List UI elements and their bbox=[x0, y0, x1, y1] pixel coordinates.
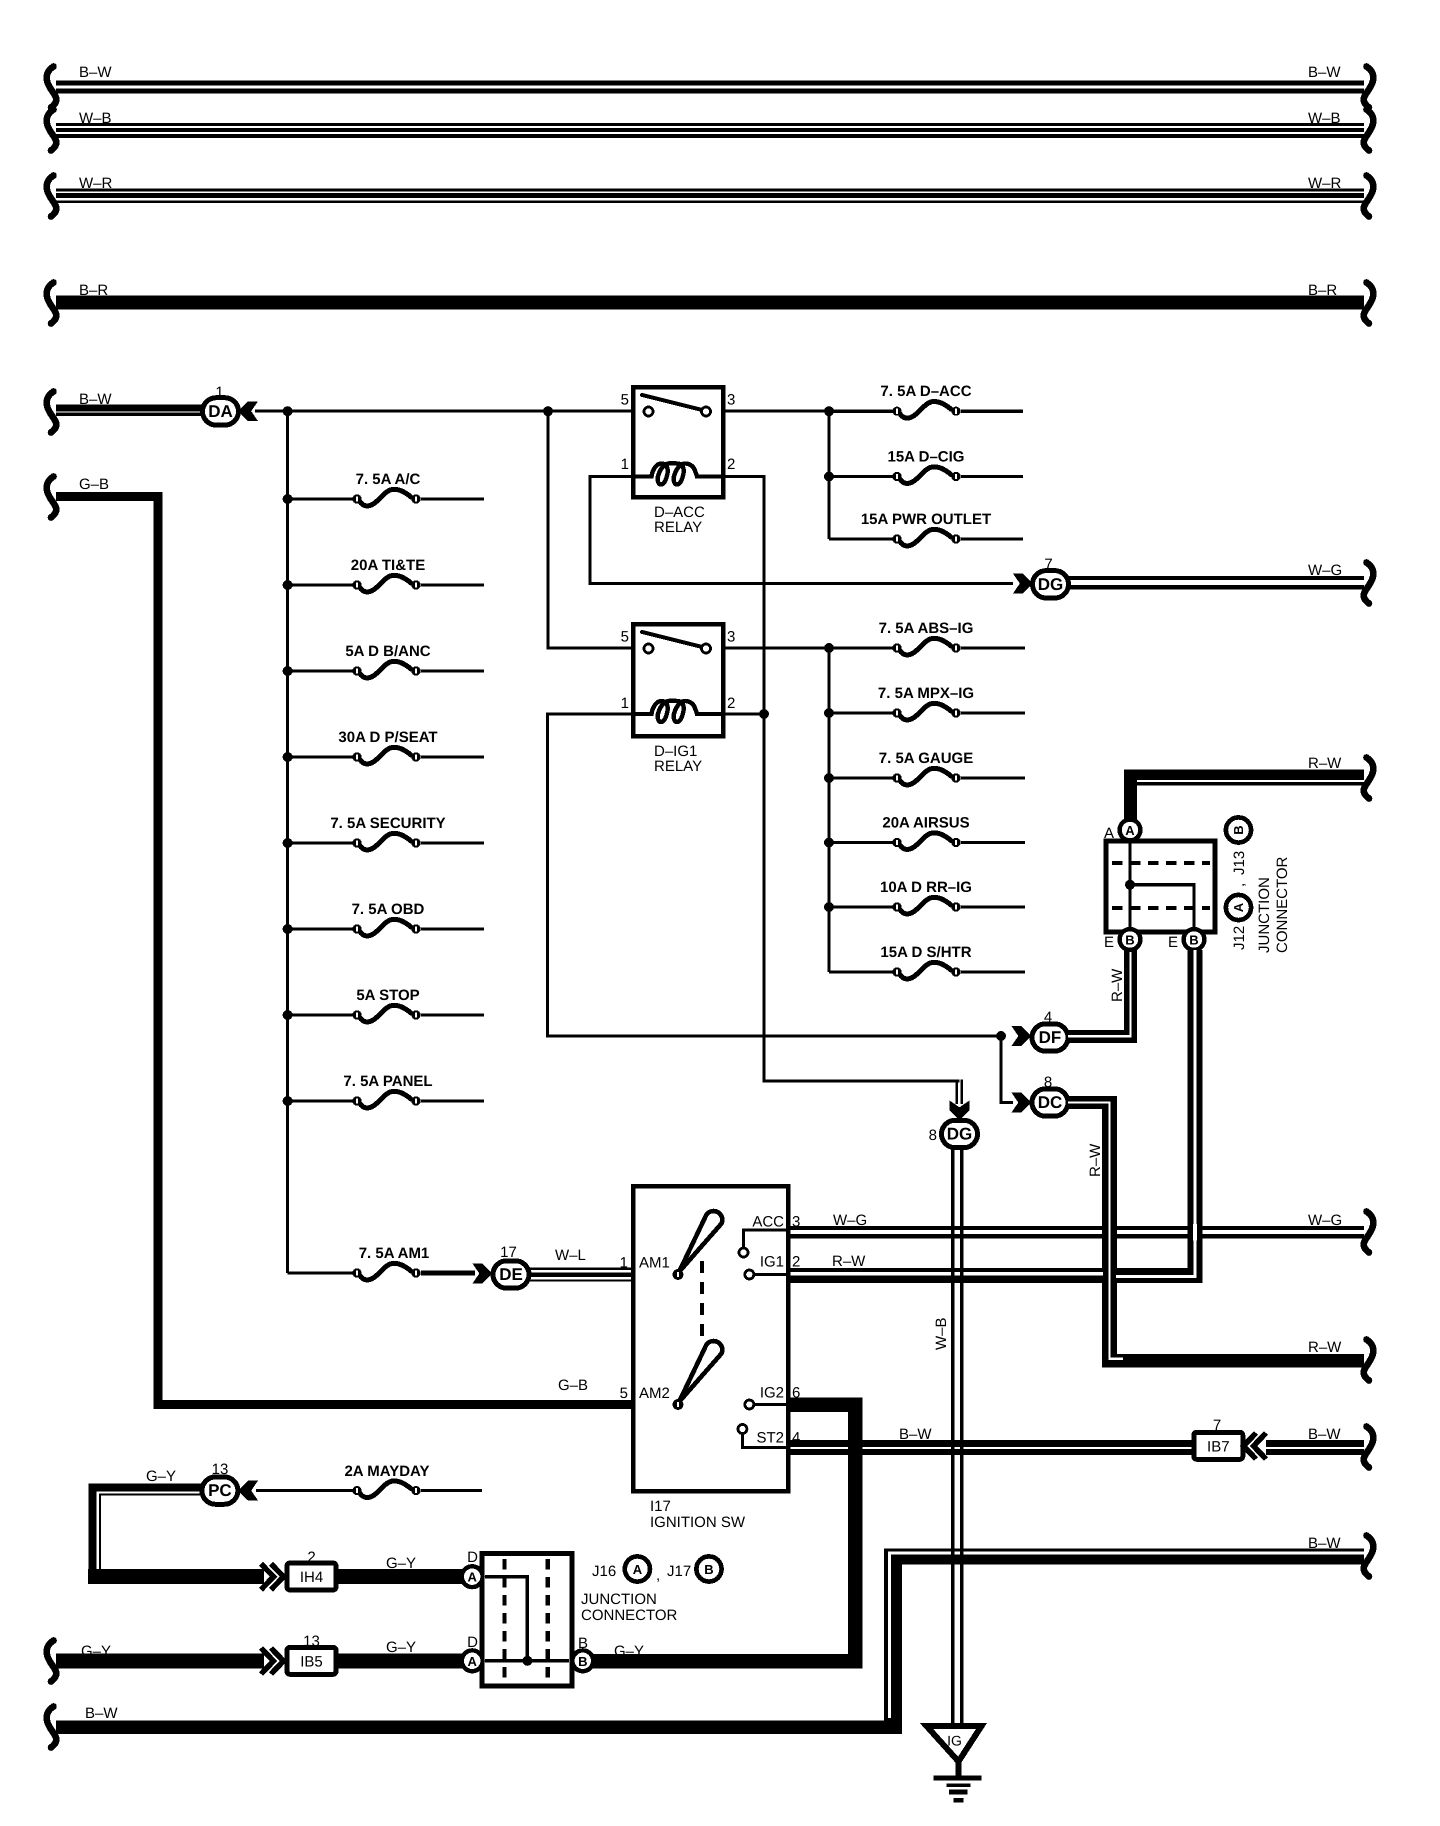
svg-text:G–Y: G–Y bbox=[146, 1468, 176, 1485]
wire B-vertical gap over W-G crossing bbox=[1193, 1224, 1197, 1241]
wire to fuse 15A PWR OUTLET bbox=[829, 537, 893, 540]
wire D-ACC pin2 down bbox=[723, 477, 764, 715]
svg-text:ST2: ST2 bbox=[756, 1430, 784, 1447]
relay D-IG1 box bbox=[633, 624, 723, 736]
svg-text:IB7: IB7 bbox=[1207, 1438, 1230, 1455]
wire W-L from DE to ignition switch AM1 bbox=[529, 1267, 633, 1269]
svg-text:DG: DG bbox=[947, 1125, 973, 1144]
wire down to DC bbox=[1001, 1036, 1013, 1103]
svg-text:B–W: B–W bbox=[1308, 1535, 1341, 1552]
svg-text:B: B bbox=[1125, 933, 1134, 948]
page connector brace W-R right bbox=[1364, 176, 1374, 217]
junction dot at fuse 7. 5A SECURITY bbox=[283, 838, 293, 848]
page connector brace B-R left bbox=[47, 283, 57, 324]
svg-text:AM1: AM1 bbox=[639, 1255, 670, 1272]
svg-text:2: 2 bbox=[727, 695, 735, 712]
junction dot feeder B row 3 bbox=[824, 773, 834, 783]
svg-text:A: A bbox=[468, 1570, 478, 1585]
svg-text:B: B bbox=[704, 1562, 713, 1577]
svg-text:B: B bbox=[1231, 825, 1246, 834]
page connector brace B-R right bbox=[1364, 283, 1374, 324]
svg-text:A: A bbox=[1125, 823, 1135, 838]
wire to fuse 7. 5A SECURITY bbox=[288, 841, 353, 844]
wire G-Y from PC loop to IH4 feed bbox=[93, 1488, 203, 1576]
junction connector dashed row 2 bbox=[1112, 906, 1210, 910]
wire D-ACC pin3 to right fuse feeder bbox=[723, 410, 829, 413]
wire right feeder A bbox=[827, 411, 830, 539]
svg-text:7. 5A SECURITY: 7. 5A SECURITY bbox=[330, 815, 445, 832]
wire DC core over W-G crossing bbox=[1108, 1224, 1110, 1241]
svg-text:DF: DF bbox=[1039, 1028, 1062, 1047]
svg-text:G–Y: G–Y bbox=[386, 1639, 416, 1656]
ground bar 4 bbox=[954, 1798, 964, 1802]
junction connector inner link bbox=[485, 1577, 569, 1661]
switch link dashed bbox=[700, 1261, 704, 1343]
junction dot feeder B row 5 bbox=[824, 902, 834, 912]
svg-text:3: 3 bbox=[727, 629, 735, 646]
svg-text:15A PWR OUTLET: 15A PWR OUTLET bbox=[861, 511, 991, 528]
junction dot inner link bbox=[1125, 880, 1135, 890]
svg-text:RELAY: RELAY bbox=[654, 519, 702, 536]
switch AM2 blade bbox=[679, 1341, 722, 1402]
page connector brace B-W IB7 right bbox=[1364, 1427, 1374, 1468]
ground bar 3 bbox=[949, 1790, 968, 1795]
terminal B bottom-left bbox=[1120, 929, 1141, 950]
connector DC arrow bbox=[1012, 1093, 1032, 1113]
svg-text:10A D RR–IG: 10A D RR–IG bbox=[880, 879, 972, 896]
svg-text:JUNCTION: JUNCTION bbox=[1256, 877, 1273, 953]
wire AM1 fuse to DE bbox=[421, 1271, 475, 1276]
wire to fuse 7. 5A A/C bbox=[288, 497, 353, 500]
connector PC bbox=[202, 1477, 238, 1504]
svg-text:30A D P/SEAT: 30A D P/SEAT bbox=[338, 729, 437, 746]
svg-text:CONNECTOR: CONNECTOR bbox=[1274, 856, 1291, 953]
terminal B right bbox=[572, 1650, 593, 1671]
svg-text:B–W: B–W bbox=[1308, 1426, 1341, 1443]
wire to fuse 5A D B/ANC bbox=[288, 669, 353, 672]
wire W-B from DG(8) to ground bbox=[951, 1147, 954, 1725]
junction dot at fuse 30A D P/SEAT bbox=[283, 752, 293, 762]
terminal A top bbox=[1120, 820, 1141, 841]
page connector brace W-G ACC right bbox=[1364, 1212, 1374, 1253]
connector IH4 chevrons bbox=[261, 1564, 284, 1590]
svg-text:B–W: B–W bbox=[79, 64, 112, 81]
wire to fuse 7. 5A OBD bbox=[288, 927, 353, 930]
page connector brace W-B right bbox=[1364, 110, 1374, 151]
svg-text:2: 2 bbox=[792, 1254, 800, 1271]
svg-text:DE: DE bbox=[499, 1265, 523, 1284]
page connector brace B-W mid right bbox=[1364, 1536, 1374, 1577]
wire G-Y from left edge to IB5 bbox=[56, 1654, 264, 1669]
IG1 contact pin and lead bbox=[753, 1273, 786, 1276]
wire R-W from DF up to junction connector B bbox=[1068, 1030, 1137, 1043]
svg-text:2A MAYDAY: 2A MAYDAY bbox=[344, 1463, 429, 1480]
svg-text:J17: J17 bbox=[667, 1563, 691, 1580]
svg-text:W–B: W–B bbox=[1308, 110, 1341, 127]
wire W-B verticals over B-W row bbox=[951, 1543, 954, 1572]
svg-text:B: B bbox=[578, 1654, 587, 1669]
svg-text:A: A bbox=[468, 1654, 478, 1669]
junction dot at fuse 5A STOP bbox=[283, 1010, 293, 1020]
wire DC white core over crossing bbox=[1108, 1263, 1110, 1288]
wire B-W from right edge into IB7 bbox=[1266, 1440, 1364, 1447]
svg-text:AM2: AM2 bbox=[639, 1385, 670, 1402]
svg-text:IG1: IG1 bbox=[760, 1254, 784, 1271]
svg-text:W–B: W–B bbox=[933, 1317, 950, 1350]
ACC contact pin and lead bbox=[744, 1230, 787, 1248]
svg-text:J13: J13 bbox=[1231, 851, 1248, 875]
wire W-B verticals over crossing bbox=[951, 1262, 954, 1289]
svg-text:1: 1 bbox=[620, 1255, 628, 1272]
wire B-W top bus bbox=[56, 81, 1364, 86]
wire R-W from junction connector A to right edge bbox=[1124, 770, 1137, 830]
wire to fuse 20A TI&amp;TE bbox=[288, 583, 353, 586]
terminal A bottom (IB5) bbox=[462, 1650, 483, 1671]
wire D-IG1 pin2 to common bbox=[723, 712, 766, 715]
page connector brace R-W lower right bbox=[1364, 1340, 1374, 1381]
svg-text:B: B bbox=[578, 1635, 588, 1652]
connector DA arrow bbox=[238, 401, 258, 421]
svg-text:IG: IG bbox=[947, 1733, 962, 1749]
svg-text:5: 5 bbox=[621, 629, 629, 646]
svg-text:R–W: R–W bbox=[1087, 1143, 1104, 1177]
svg-text:,: , bbox=[656, 1567, 660, 1584]
ST2 contact pin and lead bbox=[742, 1433, 786, 1447]
junction connector dashed row 1 bbox=[1112, 861, 1210, 865]
wire R-W hollow from terminal B right down to IG1 row bbox=[1188, 950, 1203, 1283]
svg-text:G–B: G–B bbox=[79, 476, 109, 493]
switch AM1 blade bbox=[679, 1211, 722, 1272]
svg-text:A: A bbox=[1104, 825, 1114, 842]
connector IB7 chevrons bbox=[1244, 1433, 1267, 1459]
svg-text:7. 5A AM1: 7. 5A AM1 bbox=[359, 1245, 430, 1262]
svg-text:ACC: ACC bbox=[752, 1214, 784, 1231]
wire to fuse 30A D P/SEAT bbox=[288, 755, 353, 758]
wire to fuse 7. 5A MPX–IG bbox=[829, 711, 893, 714]
relay D-IG1 coil bbox=[635, 701, 721, 722]
switch AM1 contact bbox=[673, 1269, 684, 1280]
svg-text:W–G: W–G bbox=[1308, 562, 1342, 579]
junction dot DF/DC split bbox=[996, 1031, 1006, 1041]
junction dot feeder B row 1 bbox=[824, 643, 834, 653]
IG2 contact pin and lead bbox=[753, 1403, 786, 1406]
wire MAYDAY fuse row bbox=[256, 1489, 353, 1492]
svg-text:5A STOP: 5A STOP bbox=[356, 987, 419, 1004]
svg-text:5: 5 bbox=[620, 1385, 628, 1402]
svg-text:G–Y: G–Y bbox=[386, 1555, 416, 1572]
junction dot feeder A row 1 bbox=[824, 406, 834, 416]
junction dot trunk top bbox=[283, 406, 293, 416]
wire to fuse 15A D S/HTR bbox=[829, 970, 893, 973]
svg-text:7. 5A OBD: 7. 5A OBD bbox=[352, 901, 425, 918]
ground bar 2 bbox=[947, 1784, 971, 1788]
svg-text:IH4: IH4 bbox=[300, 1569, 323, 1586]
wire B-R bus bbox=[56, 296, 1364, 310]
wire right feeder B bbox=[827, 648, 830, 972]
relay D-IG1 pin 3 contact bbox=[702, 644, 711, 653]
svg-text:15A D–CIG: 15A D–CIG bbox=[888, 449, 965, 466]
junction dot feeder B row 2 bbox=[824, 708, 834, 718]
connector DE arrow bbox=[473, 1264, 493, 1284]
junction connector dashed col 1 bbox=[502, 1559, 506, 1681]
ignition switch I17 box bbox=[633, 1186, 788, 1491]
junction dot at fuse 20A TI&amp;TE bbox=[283, 580, 293, 590]
wire R-W from DC to right edge (down and right) bbox=[1068, 1096, 1117, 1109]
terminal A top (IH4) bbox=[462, 1566, 483, 1587]
svg-text:B–R: B–R bbox=[79, 282, 108, 299]
page connector brace B-W bottom left bbox=[47, 1707, 57, 1748]
junction dot at fuse 7. 5A A/C bbox=[283, 494, 293, 504]
junction connector dashed col 2 bbox=[545, 1559, 549, 1681]
svg-text:20A AIRSUS: 20A AIRSUS bbox=[882, 815, 969, 832]
svg-text:R–W: R–W bbox=[1308, 755, 1342, 772]
svg-text:B–W: B–W bbox=[899, 1426, 932, 1443]
svg-text:G–Y: G–Y bbox=[614, 1643, 644, 1660]
wire G-Y feed to IH4 bbox=[88, 1569, 264, 1584]
junction connector center line bbox=[1128, 843, 1131, 930]
wire W-B top bus bbox=[56, 123, 1364, 126]
wire main feed from DA to relays bbox=[255, 410, 635, 413]
relay D-IG1 switch blade bbox=[642, 632, 703, 647]
connector PC arrow bbox=[238, 1481, 258, 1501]
svg-text:3: 3 bbox=[727, 392, 735, 409]
svg-text:5: 5 bbox=[621, 392, 629, 409]
wire to fuse 5A STOP bbox=[288, 1013, 353, 1016]
svg-text:A: A bbox=[633, 1562, 643, 1577]
svg-text:W–B: W–B bbox=[79, 110, 112, 127]
svg-text:PC: PC bbox=[208, 1481, 232, 1500]
svg-text:A: A bbox=[1231, 902, 1246, 912]
switch AM2 contact bbox=[673, 1399, 684, 1410]
wire to fuse 7. 5A ABS–IG bbox=[829, 646, 893, 649]
relay D-ACC coil bbox=[635, 463, 721, 484]
wire D-IG1 pin1 to DF/DC bbox=[548, 714, 1002, 1036]
wire to fuse 7. 5A GAUGE bbox=[829, 776, 893, 779]
junction connector inner link bbox=[1130, 885, 1194, 930]
junction dot coil common bbox=[759, 709, 769, 719]
svg-text:1: 1 bbox=[621, 695, 629, 712]
junction connector J12/J13 box bbox=[1106, 841, 1215, 932]
svg-text:R–W: R–W bbox=[1308, 1339, 1342, 1356]
wire W-R top bus bbox=[56, 189, 1364, 192]
svg-text:G–Y: G–Y bbox=[81, 1643, 111, 1660]
junction dot at fuse 5A D B/ANC bbox=[283, 666, 293, 676]
wire coil common down to DG(8) bbox=[764, 714, 960, 1081]
svg-text:W–G: W–G bbox=[833, 1212, 867, 1229]
svg-text:W–R: W–R bbox=[79, 175, 113, 192]
wire D-ACC pin1 to DG(7) bbox=[590, 477, 1013, 584]
connector IB5 chevrons bbox=[261, 1648, 284, 1674]
svg-text:J16: J16 bbox=[592, 1563, 616, 1580]
svg-text:7. 5A D–ACC: 7. 5A D–ACC bbox=[880, 383, 971, 400]
svg-text:R–W: R–W bbox=[1109, 968, 1126, 1002]
page connector brace B-W right bbox=[1364, 67, 1374, 108]
svg-text:IGNITION SW: IGNITION SW bbox=[650, 1514, 746, 1531]
page connector brace G-Y left bbox=[47, 1641, 57, 1682]
wire B-W from ST2 to IB7 bbox=[788, 1440, 1195, 1447]
junction connector J16/J17 box bbox=[482, 1553, 572, 1685]
svg-text:E: E bbox=[1168, 934, 1178, 951]
ground bar 1 bbox=[934, 1775, 982, 1780]
label J12 A (rotated) bbox=[1226, 895, 1251, 920]
svg-text:5A D B/ANC: 5A D B/ANC bbox=[345, 643, 430, 660]
junction dot relay feed bbox=[543, 406, 553, 416]
junction dot feeder B row 4 bbox=[824, 838, 834, 848]
svg-text:DG: DG bbox=[1038, 575, 1064, 594]
svg-text:7. 5A GAUGE: 7. 5A GAUGE bbox=[879, 750, 973, 767]
svg-text:B: B bbox=[1189, 933, 1198, 948]
svg-text:B–W: B–W bbox=[79, 391, 112, 408]
wire B-W into connector DA bbox=[56, 405, 203, 412]
svg-text:JUNCTION: JUNCTION bbox=[581, 1591, 657, 1608]
junction dot at fuse 7. 5A OBD bbox=[283, 924, 293, 934]
ground stem bbox=[956, 1758, 962, 1777]
page connector brace W-B left bbox=[47, 110, 57, 151]
label J13 B (rotated) bbox=[1226, 817, 1251, 842]
wire left fuse trunk bbox=[286, 411, 289, 1273]
wire to fuse 7. 5A PANEL bbox=[288, 1099, 353, 1102]
svg-text:7. 5A A/C: 7. 5A A/C bbox=[356, 471, 421, 488]
svg-text:1: 1 bbox=[621, 456, 629, 473]
wire feed down to D-IG1 pin5 bbox=[548, 411, 635, 648]
wire to fuse 15A D–CIG bbox=[829, 475, 893, 478]
svg-text:R–W: R–W bbox=[832, 1253, 866, 1270]
ground IG triangle bbox=[927, 1726, 982, 1762]
svg-text:E: E bbox=[1104, 934, 1114, 951]
connector DG (8) arrow down bbox=[950, 1101, 970, 1121]
page connector brace W-G right bbox=[1364, 563, 1374, 604]
svg-text:B–R: B–R bbox=[1308, 282, 1337, 299]
page connector brace B-W left bbox=[47, 67, 57, 108]
svg-text:W–L: W–L bbox=[555, 1247, 586, 1264]
svg-text:2: 2 bbox=[727, 456, 735, 473]
connector DF arrow bbox=[1012, 1026, 1032, 1046]
relay D-ACC pin 3 contact bbox=[702, 407, 711, 416]
relay D-ACC switch blade bbox=[642, 395, 703, 410]
svg-text:,: , bbox=[1231, 883, 1248, 887]
junction dot at fuse 7. 5A PANEL bbox=[283, 1096, 293, 1106]
junction dot feeder A row 2 bbox=[824, 472, 834, 482]
connector DG (7) arrow bbox=[1013, 574, 1033, 594]
page connector brace B-W DA-row left bbox=[47, 392, 57, 433]
svg-text:CONNECTOR: CONNECTOR bbox=[581, 1607, 678, 1624]
wire G-B from left edge to AM2 bbox=[56, 497, 633, 1405]
svg-text:W–R: W–R bbox=[1308, 175, 1342, 192]
wire to fuse 20A AIRSUS bbox=[829, 841, 893, 844]
wire B-W riser bbox=[884, 1549, 902, 1735]
wire G-Y from IG2 down to junction connector B bbox=[593, 1405, 855, 1662]
wire G-Y from IB5 to junction connector A bbox=[336, 1654, 462, 1669]
svg-text:8: 8 bbox=[929, 1127, 937, 1144]
svg-text:IB5: IB5 bbox=[300, 1653, 323, 1670]
svg-text:IG2: IG2 bbox=[760, 1385, 784, 1402]
svg-text:D: D bbox=[467, 1549, 478, 1566]
relay D-ACC box bbox=[633, 387, 723, 497]
svg-text:7. 5A ABS–IG: 7. 5A ABS–IG bbox=[879, 620, 974, 637]
svg-text:J12: J12 bbox=[1231, 926, 1248, 950]
page connector brace G-B left bbox=[47, 477, 57, 518]
junction dot inner link bbox=[522, 1656, 532, 1666]
svg-text:7. 5A MPX–IG: 7. 5A MPX–IG bbox=[878, 685, 974, 702]
svg-text:I17: I17 bbox=[650, 1498, 671, 1515]
relay D-ACC pin 5 contact bbox=[644, 407, 653, 416]
terminal B bottom-right bbox=[1184, 929, 1205, 950]
svg-text:W–G: W–G bbox=[1308, 1212, 1342, 1229]
svg-text:DA: DA bbox=[208, 402, 233, 421]
svg-text:20A TI&TE: 20A TI&TE bbox=[351, 557, 425, 574]
svg-text:DC: DC bbox=[1038, 1093, 1063, 1112]
relay D-IG1 pin 5 contact bbox=[644, 644, 653, 653]
page connector brace R-W top right bbox=[1364, 758, 1374, 799]
wire W-G from DG to right edge bbox=[1068, 576, 1364, 580]
page connector brace W-R left bbox=[47, 176, 57, 217]
wire to fuse 10A D RR–IG bbox=[829, 905, 893, 908]
wire D-IG1 pin3 to right feeder B bbox=[723, 647, 829, 650]
svg-text:G–B: G–B bbox=[558, 1377, 588, 1394]
wire W-G from ACC to right edge bbox=[788, 1226, 1364, 1230]
wire B-W to right edge bbox=[893, 1549, 1364, 1565]
wire G-Y from IH4 to junction connector A bbox=[336, 1569, 462, 1584]
wire to fuse 7. 5A D–ACC bbox=[829, 410, 893, 413]
svg-text:B–W: B–W bbox=[1308, 64, 1341, 81]
svg-text:15A D S/HTR: 15A D S/HTR bbox=[880, 944, 971, 961]
wire B-W bottom bus bbox=[56, 1720, 902, 1734]
svg-text:B–W: B–W bbox=[85, 1705, 118, 1722]
svg-text:7. 5A PANEL: 7. 5A PANEL bbox=[343, 1073, 432, 1090]
svg-text:RELAY: RELAY bbox=[654, 758, 702, 775]
wire trunk corner to AM1 fuse bbox=[288, 1271, 353, 1274]
